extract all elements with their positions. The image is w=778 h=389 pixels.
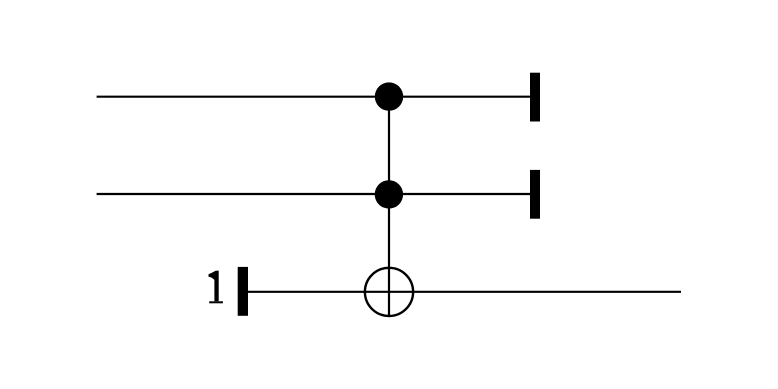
terminator bar q1: [530, 170, 540, 219]
terminator bar q0: [530, 73, 540, 122]
wire qubit q0 (top): [97, 96, 530, 98]
wire vertical control connector: [388, 97, 390, 317]
XOR target on q2: [365, 268, 413, 316]
wire qubit q2 (bottom): [248, 291, 681, 293]
initializer bar q2: [238, 267, 248, 316]
control dot on q0: [375, 82, 403, 110]
control dot on q1: [375, 180, 403, 208]
wire qubit q1 (middle): [97, 193, 530, 195]
label 1 on q2 input (drawn as path: stem+flag and base serif): [209, 271, 219, 302]
